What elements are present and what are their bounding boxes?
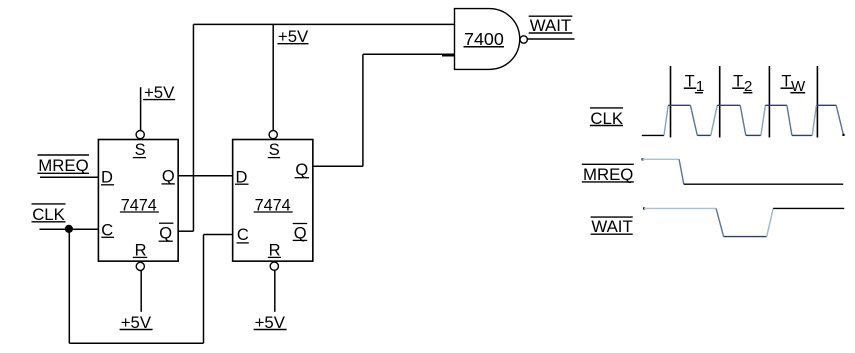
- flip-flop U2 box 7474: [233, 140, 313, 262]
- wire U2 S to +5V: [272, 24, 274, 130]
- period label TW: [781, 72, 807, 95]
- U2 pin Qbar label: [293, 224, 308, 243]
- U1 pin D label: [101, 169, 114, 187]
- flip-flop U1 box 7474: [98, 140, 178, 262]
- wire CLK along bottom: [69, 342, 203, 344]
- CLK waveform rising edge 3: [761, 105, 766, 135]
- WAIT waveform high segment 1: [644, 207, 716, 209]
- NAND gate U3 7400 body: [455, 9, 520, 70]
- wire U1 Q to U2 D: [178, 175, 233, 177]
- CLK waveform rising edge 2: [711, 105, 717, 135]
- period label T1: [684, 72, 704, 95]
- U1 pin R label: [133, 242, 148, 260]
- wire to NAND input 2: [363, 53, 455, 55]
- label WAIT output: [529, 16, 573, 35]
- CLK waveform high plateau 1: [668, 104, 690, 106]
- timing divider line 3: [768, 66, 770, 138]
- U2 R clear bubble: [270, 262, 278, 270]
- U2 pin S label: [268, 141, 280, 159]
- svg-text:S: S: [135, 141, 146, 159]
- svg-text:7400: 7400: [464, 29, 504, 49]
- U2 S preset bubble: [269, 131, 277, 139]
- wire U1 S to +5V: [140, 87, 142, 130]
- CLK waveform low 1: [697, 134, 711, 136]
- wire top to NAND input 1: [193, 23, 454, 25]
- MREQ waveform start dot: [642, 158, 644, 160]
- power +5V at U2 R: [254, 313, 287, 332]
- svg-text:WAIT: WAIT: [591, 217, 632, 236]
- U2 pin Q label: [295, 161, 310, 179]
- MREQ waveform low segment: [684, 183, 843, 185]
- svg-text:C: C: [237, 226, 249, 244]
- svg-text:S: S: [269, 141, 280, 159]
- wire U1 Qbar up: [192, 24, 194, 231]
- power +5V at U2 S: [278, 27, 310, 46]
- U3 output inverter bubble: [520, 36, 527, 43]
- CLK waveform high plateau 2: [717, 104, 740, 106]
- CLK waveform rising edge 1: [664, 105, 668, 135]
- U3 label 7400: [464, 29, 505, 49]
- wire U1 Qbar stub: [178, 230, 193, 232]
- WAIT waveform high segment 2: [773, 207, 844, 209]
- NAND input 2 pin stub: [442, 54, 455, 56]
- U1 pin S label: [133, 141, 146, 159]
- CLK waveform rising edge 4: [812, 105, 816, 135]
- U1 S preset bubble: [136, 131, 144, 139]
- WAIT waveform start dot: [643, 207, 645, 209]
- wire MREQ to U1 D: [40, 176, 98, 178]
- timing label CLK: [590, 108, 623, 128]
- power +5V at U1 S: [143, 83, 175, 102]
- CLK waveform high plateau 3: [765, 104, 787, 106]
- MREQ waveform high segment: [642, 158, 679, 160]
- U1 label 7474: [120, 196, 159, 214]
- CLK waveform falling edge 3: [787, 105, 792, 135]
- CLK waveform end dot: [842, 134, 844, 136]
- timing label WAIT: [591, 217, 633, 236]
- CLK waveform high plateau 4: [816, 104, 836, 106]
- CLK waveform low 2: [746, 134, 761, 136]
- U2 pin D label: [235, 169, 249, 187]
- timing divider line 2: [719, 66, 721, 138]
- U1 R clear bubble: [136, 262, 144, 270]
- CLK waveform falling edge 4: [836, 105, 843, 135]
- U1 pin Qbar label: [159, 223, 174, 243]
- wire NAND output: [528, 38, 575, 40]
- wire U2 Q stub: [313, 165, 363, 167]
- WAIT waveform low segment: [724, 236, 767, 238]
- WAIT waveform falling edge: [716, 208, 724, 236]
- CLK waveform initial low segment: [642, 134, 664, 136]
- timing divider line 4: [816, 66, 818, 138]
- svg-text:Q: Q: [295, 161, 308, 179]
- wire CLK down from junction: [68, 229, 70, 343]
- U2 pin C label: [237, 226, 249, 244]
- junction dot on CLK wire: [65, 225, 73, 233]
- U1 pin Q label: [162, 168, 175, 186]
- U2 pin R label: [268, 242, 281, 260]
- wire CLK up to U2 C: [203, 235, 205, 344]
- wire U2 R to +5V: [274, 271, 276, 312]
- timing divider line 1: [670, 66, 672, 138]
- CLK waveform low 3: [792, 134, 812, 136]
- U2 label 7474: [254, 196, 293, 214]
- U1 pin C label: [101, 221, 114, 239]
- label CLK input: [32, 204, 66, 224]
- svg-text:MREQ: MREQ: [38, 156, 88, 175]
- svg-text:Q: Q: [162, 168, 175, 186]
- CLK waveform falling edge 2: [740, 105, 746, 135]
- MREQ waveform falling edge: [679, 159, 684, 184]
- wire CLK to U1 C: [40, 228, 99, 230]
- label MREQ input: [38, 155, 90, 175]
- period label T2: [732, 72, 752, 95]
- timing label MREQ: [582, 164, 634, 184]
- WAIT waveform rising edge: [767, 208, 774, 236]
- wire into U2 C pin: [204, 234, 233, 236]
- svg-text:CLK: CLK: [32, 205, 65, 224]
- svg-text:Q: Q: [159, 225, 172, 243]
- svg-text:D: D: [101, 169, 113, 187]
- wire U1 R to +5V: [140, 271, 142, 312]
- CLK waveform falling edge 1: [690, 105, 697, 135]
- power +5V at U1 R: [120, 313, 153, 332]
- wire U2 Q up: [362, 54, 364, 166]
